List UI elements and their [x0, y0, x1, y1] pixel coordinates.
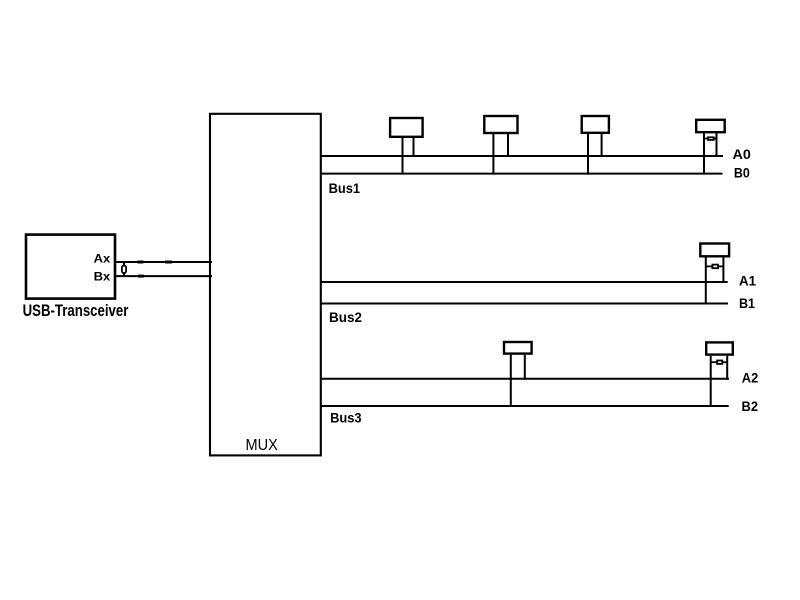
wire A0 Bus1 top — [320, 155, 723, 157]
wire D6 lead to B2 — [510, 355, 512, 407]
wire D5 lead to A1 — [722, 258, 724, 284]
svg-text:Bus2: Bus2 — [329, 309, 362, 325]
wire Bx from U1 to MUX — [115, 275, 213, 277]
termination resistor R4 on device D7 — [711, 361, 728, 364]
svg-text:B1: B1 — [739, 295, 755, 311]
svg-text:Bus1: Bus1 — [329, 180, 361, 196]
termination resistor R2 on device D4 — [704, 137, 717, 140]
MUX U2 — [210, 114, 321, 456]
device D1 on Bus1 — [390, 118, 423, 137]
wire B2 Bus3 bottom — [320, 405, 729, 407]
wire D2 lead to A0 — [507, 134, 509, 157]
device D2 on Bus1 — [484, 116, 517, 133]
device D5 on Bus2 — [700, 244, 729, 257]
wire D1 lead to B0 — [402, 137, 404, 175]
wire Ax from U1 to MUX — [115, 261, 213, 263]
wire D3 lead to A0 — [601, 134, 603, 157]
svg-text:Bus3: Bus3 — [330, 409, 362, 425]
svg-text:B2: B2 — [742, 398, 759, 414]
wire B1 Bus2 bottom — [320, 303, 728, 305]
junction mark on wire Ax — [138, 261, 144, 264]
termination resistor R3 on device D5 — [706, 265, 724, 269]
svg-text:B0: B0 — [734, 165, 750, 181]
wire B0 Bus1 bottom — [320, 173, 723, 175]
svg-text:A1: A1 — [739, 273, 756, 289]
device D3 on Bus1 — [582, 116, 609, 133]
wire A1 Bus2 top — [320, 281, 728, 283]
USB transceiver U1 — [26, 235, 115, 299]
device D6 on Bus3 — [504, 342, 532, 354]
svg-text:MUX: MUX — [246, 437, 279, 454]
wire D3 lead to B0 — [587, 134, 589, 175]
wire D4 lead to B0 — [703, 133, 705, 174]
wire D7 lead to A2 — [726, 356, 728, 380]
wire D2 lead to B0 — [492, 134, 494, 175]
svg-text:A2: A2 — [742, 370, 759, 386]
device D4 on Bus1 — [696, 120, 725, 132]
wire D5 lead to B1 — [705, 258, 707, 305]
wire D7 lead to B2 — [710, 356, 712, 407]
svg-text:A0: A0 — [733, 146, 752, 162]
svg-text:USB-Transceiver: USB-Transceiver — [23, 301, 129, 320]
wire D1 lead to A0 — [413, 137, 415, 157]
junction mark on wire Bx — [138, 275, 144, 278]
svg-text:Ax: Ax — [94, 252, 111, 266]
termination resistor R1 between Ax and Bx — [122, 262, 126, 276]
wire D6 lead to A2 — [524, 355, 526, 380]
device D7 on Bus3 — [706, 342, 733, 354]
junction mark 2 on wire Ax — [165, 261, 172, 264]
svg-text:Bx: Bx — [94, 270, 111, 284]
wire A2 Bus3 top — [320, 378, 729, 380]
wire D4 lead to A0 — [716, 133, 718, 157]
